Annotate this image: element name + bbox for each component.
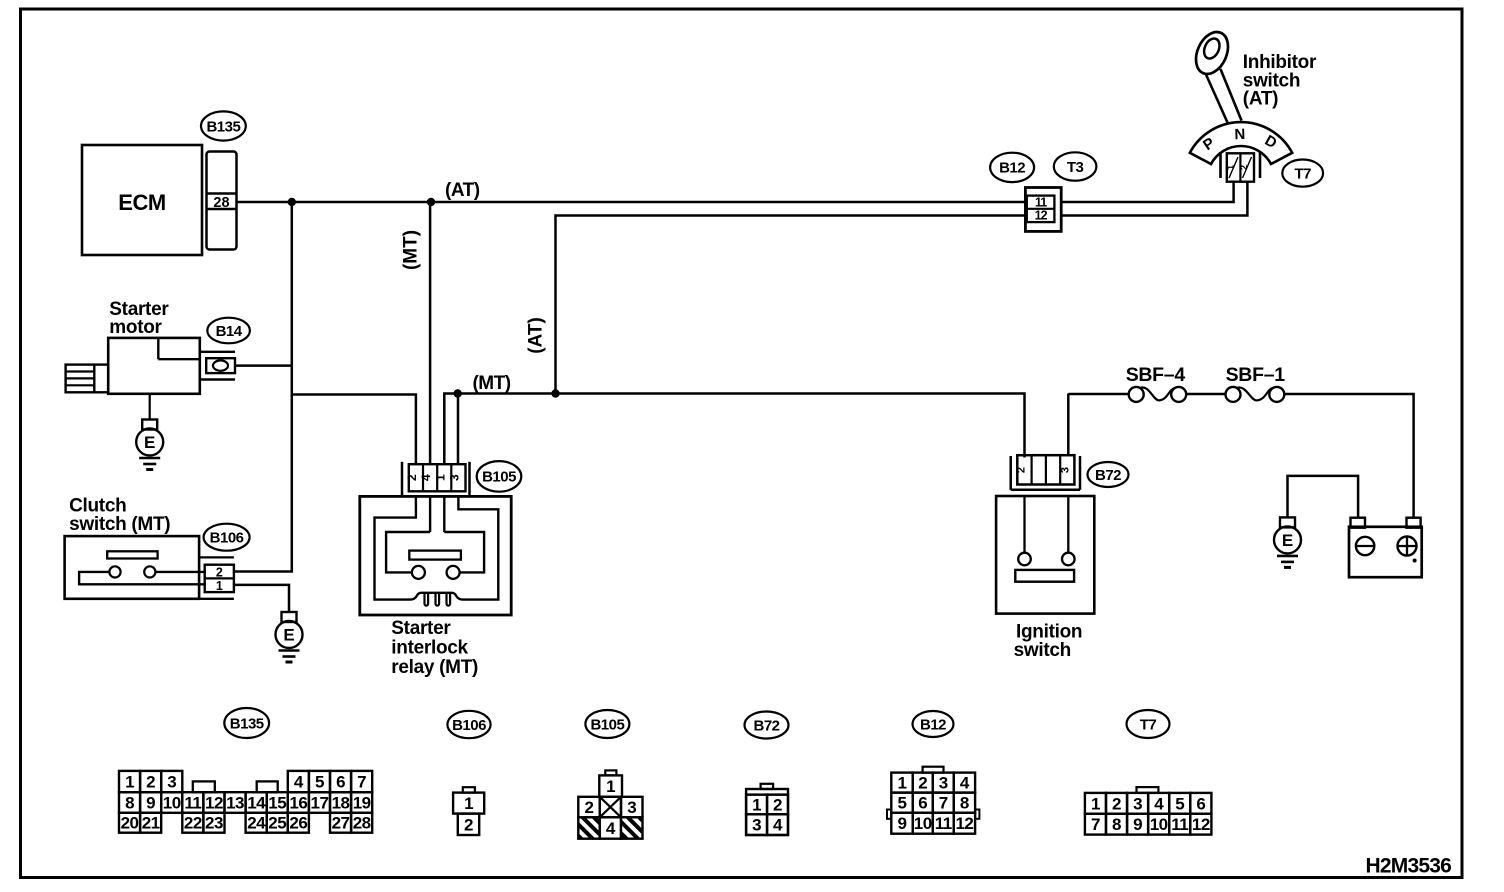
wire clutch switch pin1 to ground bbox=[234, 585, 289, 612]
svg-text:4: 4 bbox=[1154, 794, 1164, 813]
relay contact pin1 wire bbox=[443, 496, 445, 532]
svg-text:26: 26 bbox=[289, 814, 307, 833]
svg-text:E: E bbox=[283, 626, 294, 645]
svg-text:motor: motor bbox=[109, 317, 162, 338]
svg-text:6: 6 bbox=[1196, 794, 1205, 813]
wire B12 pin12 to inhibitor switch pin 2 bbox=[1061, 182, 1247, 216]
inhibitor switch PND arc bbox=[1190, 122, 1292, 164]
svg-text:2: 2 bbox=[146, 773, 155, 792]
svg-text:N: N bbox=[1234, 126, 1245, 143]
svg-text:B14: B14 bbox=[216, 323, 243, 340]
connector B14 bbox=[200, 352, 235, 380]
connector label B135 bbox=[201, 111, 246, 140]
svg-text:11: 11 bbox=[184, 793, 201, 812]
svg-text:19: 19 bbox=[353, 793, 371, 812]
svg-text:5: 5 bbox=[898, 794, 907, 813]
svg-text:28: 28 bbox=[353, 814, 371, 833]
junction (AT) vertical at x555 bbox=[551, 389, 559, 397]
relay contact pin4 wire bbox=[429, 496, 431, 532]
wire starter motor to ground bbox=[149, 394, 151, 420]
svg-text:9: 9 bbox=[146, 793, 155, 812]
svg-text:6: 6 bbox=[336, 773, 345, 792]
svg-text:25: 25 bbox=[268, 814, 286, 833]
wire battery through fuses bbox=[1068, 393, 1129, 395]
wire B12 pin11 to inhibitor switch pin 1 bbox=[1061, 182, 1233, 202]
connector label B12 bbox=[990, 153, 1034, 182]
wire (MT) from junction x431 down to relay pin 4 bbox=[429, 202, 432, 465]
pinout B72 grid bbox=[746, 784, 788, 835]
wire (AT) vertical from B12 pin12 down to (MT) wire bbox=[556, 216, 1027, 394]
svg-text:12: 12 bbox=[1035, 209, 1048, 223]
svg-text:2: 2 bbox=[773, 795, 782, 814]
svg-text:ECM: ECM bbox=[118, 190, 165, 215]
svg-text:28: 28 bbox=[213, 195, 229, 211]
svg-text:10: 10 bbox=[163, 793, 181, 812]
pinout B72 label bbox=[745, 712, 789, 739]
pinout T7 grid bbox=[1085, 787, 1212, 835]
relay coil circuit pin3 path bbox=[458, 496, 498, 599]
svg-text:12: 12 bbox=[1192, 815, 1210, 834]
svg-text:(AT): (AT) bbox=[445, 180, 480, 201]
fusible link SBF-1 bbox=[1226, 387, 1285, 402]
connector label B105 bbox=[477, 461, 522, 492]
wire starter motor B14 to x292 vertical bbox=[235, 364, 292, 367]
svg-text:15: 15 bbox=[268, 793, 286, 812]
connector label B14 bbox=[207, 318, 250, 344]
svg-text:1: 1 bbox=[464, 794, 473, 813]
svg-text:4: 4 bbox=[606, 819, 616, 838]
svg-text:4: 4 bbox=[960, 774, 970, 793]
svg-text:SBF–4: SBF–4 bbox=[1126, 364, 1186, 386]
svg-text:21: 21 bbox=[142, 814, 160, 833]
connector label T3 bbox=[1054, 152, 1097, 180]
wire ECM pin28 to B12 pin11 bbox=[237, 201, 1027, 204]
svg-text:B106: B106 bbox=[210, 529, 244, 546]
svg-text:7: 7 bbox=[939, 794, 948, 813]
svg-text:T7: T7 bbox=[1294, 165, 1311, 182]
svg-text:relay (MT): relay (MT) bbox=[391, 657, 478, 678]
svg-text:12: 12 bbox=[205, 793, 223, 812]
svg-text:8: 8 bbox=[960, 794, 969, 813]
svg-text:2: 2 bbox=[1016, 467, 1028, 473]
ignition switch bbox=[996, 496, 1094, 614]
svg-text:10: 10 bbox=[1150, 815, 1168, 834]
wire battery feed to ignition B72 bbox=[1067, 394, 1070, 456]
label Starter interlock relay (MT) bbox=[391, 618, 478, 678]
svg-text:3: 3 bbox=[939, 774, 948, 793]
svg-text:T7: T7 bbox=[1140, 716, 1157, 733]
svg-text:(AT): (AT) bbox=[1243, 89, 1278, 110]
wire (MT) from x292 vertical to relay pin 2 bbox=[292, 395, 416, 465]
svg-text:1: 1 bbox=[433, 474, 447, 481]
svg-text:4: 4 bbox=[419, 474, 433, 481]
svg-text:2: 2 bbox=[464, 815, 473, 834]
svg-text:7: 7 bbox=[1091, 815, 1100, 834]
svg-text:5: 5 bbox=[1175, 794, 1184, 813]
svg-text:17: 17 bbox=[310, 793, 328, 812]
svg-text:5: 5 bbox=[315, 773, 324, 792]
pinout B105 label bbox=[585, 710, 629, 738]
junction relay pins at x457 bbox=[454, 389, 462, 397]
svg-text:B105: B105 bbox=[482, 469, 516, 486]
svg-text:2: 2 bbox=[585, 798, 594, 817]
svg-text:T3: T3 bbox=[1067, 159, 1084, 176]
svg-text:13: 13 bbox=[226, 793, 244, 812]
ground E under starter motor bbox=[136, 420, 163, 470]
svg-text:16: 16 bbox=[289, 793, 307, 812]
inhibitor switch lever ring terminal bbox=[1190, 27, 1234, 79]
svg-text:B72: B72 bbox=[753, 717, 779, 734]
label Starter motor bbox=[109, 299, 169, 338]
svg-text:3: 3 bbox=[1133, 794, 1142, 813]
ECM bbox=[82, 145, 202, 255]
starter interlock relay box bbox=[360, 496, 511, 615]
svg-text:B12: B12 bbox=[999, 160, 1025, 177]
connector label T7 bbox=[1282, 160, 1323, 187]
svg-text:22: 22 bbox=[184, 814, 202, 833]
svg-text:E: E bbox=[1282, 531, 1293, 550]
svg-text:9: 9 bbox=[898, 814, 907, 833]
svg-text:1: 1 bbox=[125, 773, 134, 792]
ground E under clutch switch bbox=[276, 612, 303, 662]
junction at x431 (MT branch) bbox=[427, 198, 435, 206]
relay coil bbox=[410, 593, 463, 606]
svg-text:1: 1 bbox=[898, 774, 907, 793]
connector B72 bbox=[1011, 455, 1080, 490]
svg-text:interlock: interlock bbox=[391, 638, 468, 659]
svg-text:1: 1 bbox=[1225, 165, 1235, 170]
svg-text:(MT): (MT) bbox=[472, 373, 510, 394]
svg-text:9: 9 bbox=[1133, 815, 1142, 834]
svg-text:1: 1 bbox=[752, 795, 761, 814]
svg-text:3: 3 bbox=[1059, 467, 1071, 473]
wire (MT) relay pins 1,3 to ignition switch B72 bbox=[444, 394, 1024, 465]
pinout B106 label bbox=[447, 711, 490, 738]
svg-text:11: 11 bbox=[1171, 815, 1188, 834]
wire junction x292 down to clutch switch pin 2 bbox=[234, 202, 292, 572]
label Inhibitor switch (AT) bbox=[1243, 52, 1317, 110]
starter motor bbox=[66, 338, 200, 394]
connector B106 pins 2,1 bbox=[199, 557, 234, 598]
pinout B12 grid bbox=[887, 767, 979, 834]
svg-text:18: 18 bbox=[332, 793, 350, 812]
svg-text:3: 3 bbox=[447, 474, 461, 481]
connector label B106 bbox=[204, 524, 250, 551]
svg-text:20: 20 bbox=[121, 814, 139, 833]
svg-text:10: 10 bbox=[914, 814, 932, 833]
connector label B72 bbox=[1088, 462, 1129, 487]
svg-text:4: 4 bbox=[294, 773, 304, 792]
svg-text:switch (MT): switch (MT) bbox=[69, 514, 170, 535]
inhibitor switch connector T7 pins 1,2 bbox=[1221, 152, 1261, 182]
svg-text:24: 24 bbox=[247, 814, 266, 833]
svg-text:6: 6 bbox=[918, 794, 927, 813]
connector B105 pins 2,4,1,3 bbox=[402, 462, 470, 495]
pinout T7 label bbox=[1127, 710, 1170, 738]
label Ignition switch bbox=[1014, 622, 1083, 662]
svg-text:1: 1 bbox=[606, 777, 615, 796]
pinout B135 label bbox=[224, 708, 269, 738]
svg-text:2: 2 bbox=[918, 774, 927, 793]
svg-text:11: 11 bbox=[935, 814, 952, 833]
svg-text:E: E bbox=[144, 433, 155, 452]
wire relay pin 3 stub bbox=[457, 394, 460, 465]
connector B12/T3 pins 11,12 bbox=[1025, 188, 1061, 232]
svg-text:H2M3536: H2M3536 bbox=[1366, 855, 1452, 878]
svg-text:8: 8 bbox=[125, 793, 134, 812]
svg-text:27: 27 bbox=[332, 814, 350, 833]
svg-text:Starter: Starter bbox=[391, 618, 451, 639]
relay contact frame bbox=[386, 532, 484, 572]
svg-text:12: 12 bbox=[955, 814, 973, 833]
wire battery minus to ground E bbox=[1288, 476, 1359, 518]
svg-text:8: 8 bbox=[1112, 815, 1121, 834]
svg-text:7: 7 bbox=[357, 773, 366, 792]
svg-text:2: 2 bbox=[1112, 794, 1121, 813]
svg-text:3: 3 bbox=[167, 773, 176, 792]
svg-text:B105: B105 bbox=[590, 716, 624, 733]
svg-text:2: 2 bbox=[1239, 165, 1249, 170]
svg-text:2: 2 bbox=[405, 474, 419, 481]
relay contact points bbox=[412, 566, 460, 579]
svg-text:14: 14 bbox=[247, 793, 266, 812]
svg-text:B135: B135 bbox=[206, 118, 240, 135]
svg-text:switch: switch bbox=[1014, 640, 1071, 661]
svg-text:1: 1 bbox=[1091, 794, 1100, 813]
svg-text:3: 3 bbox=[627, 798, 636, 817]
fusible link SBF-4 bbox=[1129, 387, 1187, 402]
junction at x292 bbox=[288, 198, 296, 206]
connector B135 on ECM, pin 28 bbox=[207, 152, 237, 250]
ground E near battery bbox=[1274, 517, 1301, 567]
svg-text:23: 23 bbox=[205, 814, 223, 833]
pinout B106 grid bbox=[453, 787, 484, 835]
svg-text:(AT): (AT) bbox=[526, 317, 547, 354]
svg-text:2: 2 bbox=[216, 566, 223, 580]
svg-text:B135: B135 bbox=[230, 715, 264, 732]
svg-text:B106: B106 bbox=[452, 717, 486, 734]
svg-text:SBF–1: SBF–1 bbox=[1226, 364, 1286, 386]
battery bbox=[1349, 518, 1422, 578]
svg-text:B12: B12 bbox=[920, 716, 946, 733]
relay armature bar bbox=[409, 551, 461, 560]
pinout B12 label bbox=[913, 711, 954, 737]
pinout B135 grid bbox=[119, 771, 372, 833]
svg-text:4: 4 bbox=[773, 816, 783, 835]
svg-text:3: 3 bbox=[752, 816, 761, 835]
label Clutch switch (MT) bbox=[69, 496, 170, 536]
relay coil circuit pin2 path bbox=[375, 496, 416, 599]
svg-text:11: 11 bbox=[1035, 195, 1047, 209]
svg-text:(MT): (MT) bbox=[401, 230, 422, 270]
inhibitor switch lever shaft bbox=[1206, 75, 1228, 123]
svg-text:1: 1 bbox=[216, 579, 223, 593]
svg-text:B72: B72 bbox=[1095, 467, 1121, 484]
clutch switch (MT) bbox=[65, 536, 206, 599]
